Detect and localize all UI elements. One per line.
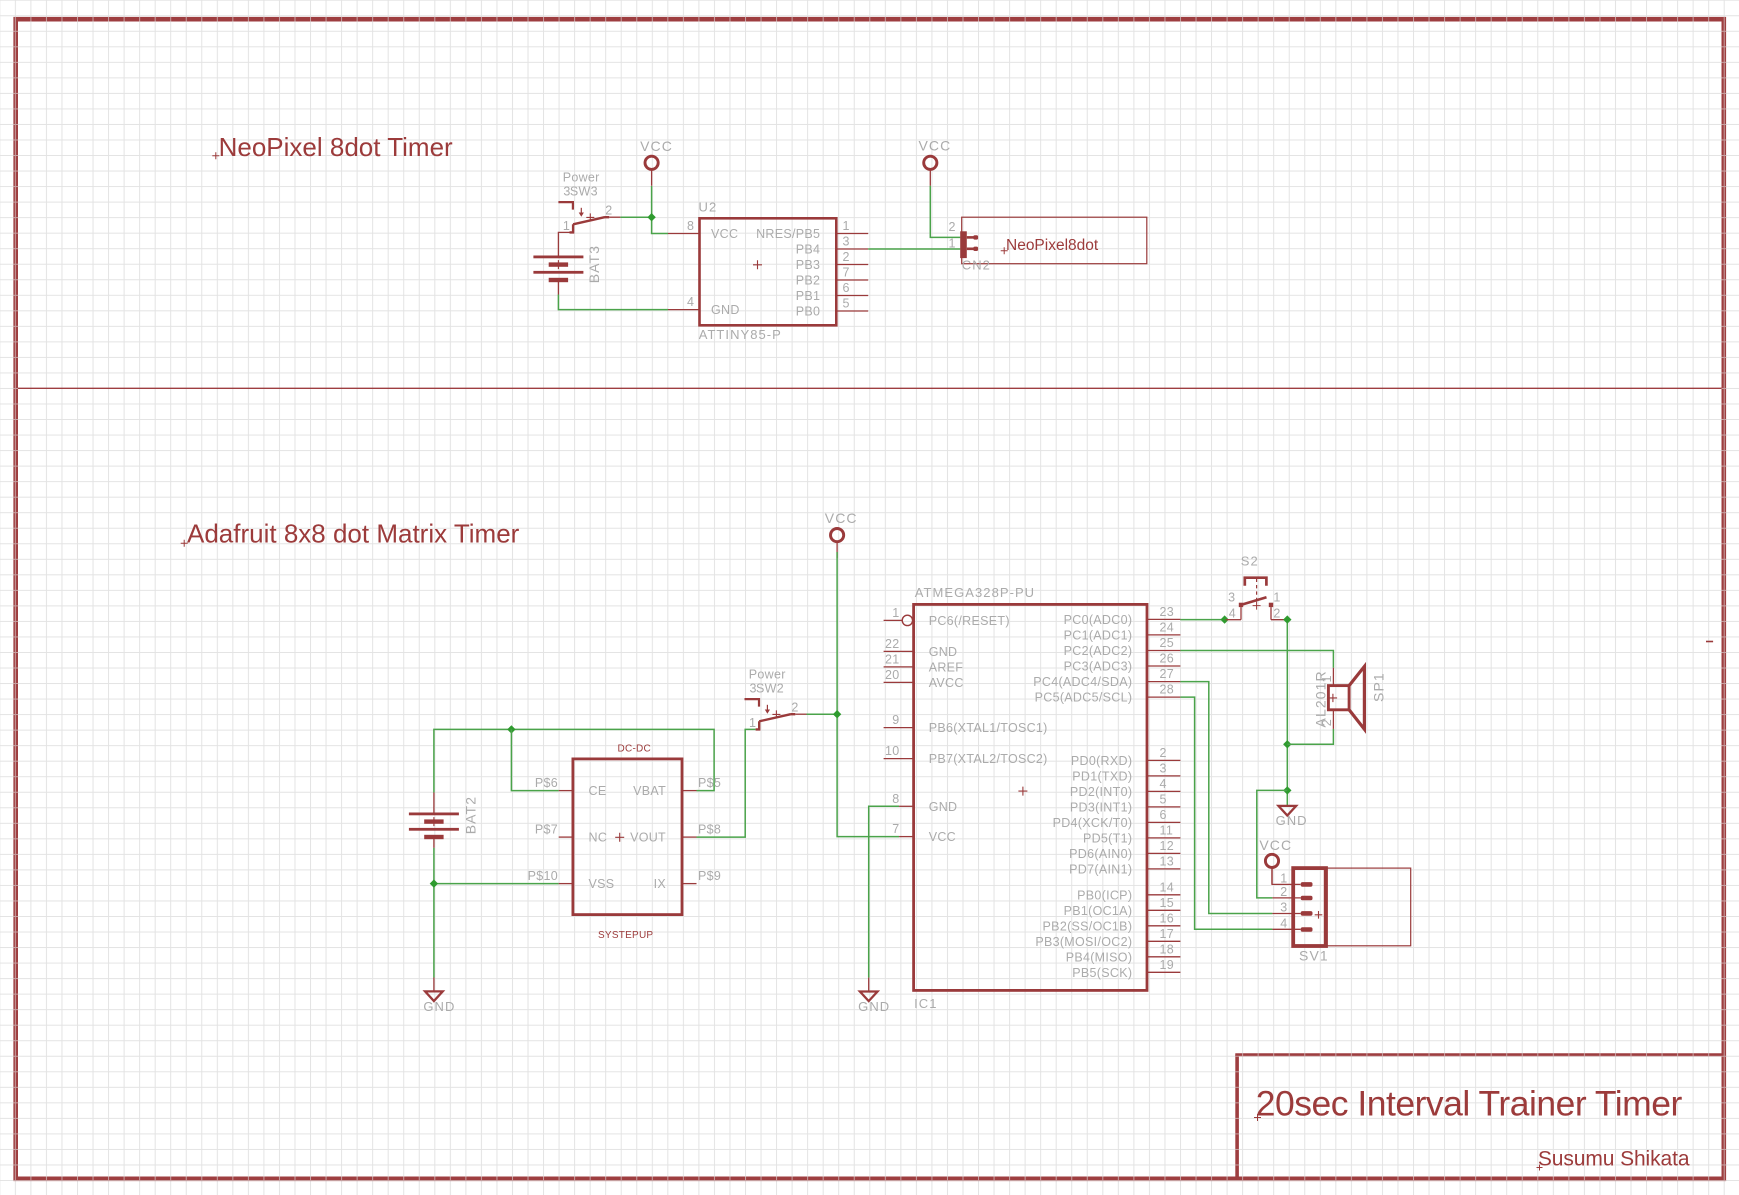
- svg-text:SP1: SP1: [1371, 672, 1387, 702]
- svg-text:PD1(TXD): PD1(TXD): [1072, 769, 1132, 783]
- svg-text:AREF: AREF: [929, 660, 964, 674]
- svg-text:P$9: P$9: [698, 869, 721, 883]
- svg-text:PB0: PB0: [796, 305, 821, 319]
- svg-text:NeoPixel 8dot Timer: NeoPixel 8dot Timer: [219, 132, 453, 162]
- svg-text:BAT3: BAT3: [586, 245, 602, 283]
- svg-text:GND: GND: [1276, 813, 1308, 828]
- svg-text:4: 4: [1229, 606, 1236, 620]
- svg-text:PC1(ADC1): PC1(ADC1): [1064, 628, 1133, 642]
- svg-text:CE: CE: [589, 784, 607, 798]
- svg-text:CN2: CN2: [962, 258, 991, 273]
- svg-text:AVCC: AVCC: [929, 676, 964, 690]
- svg-text:Power: Power: [563, 170, 600, 184]
- svg-text:NRES/PB5: NRES/PB5: [756, 227, 820, 241]
- svg-text:IC1: IC1: [914, 996, 937, 1011]
- ground GND (below IC1): [858, 992, 890, 1015]
- svg-text:S2: S2: [1241, 553, 1259, 568]
- svg-text:PD0(RXD): PD0(RXD): [1071, 754, 1132, 768]
- wire SW2 pin2 to VCC rail: [807, 713, 838, 715]
- junction VCC rail: [833, 710, 841, 718]
- svg-text:26: 26: [1160, 652, 1175, 666]
- svg-text:Adafruit 8x8 dot Matrix Timer: Adafruit 8x8 dot Matrix Timer: [187, 519, 520, 549]
- svg-text:5: 5: [1160, 792, 1167, 806]
- text title "NeoPixel 8dot Timer": [212, 132, 453, 162]
- svg-text:2: 2: [843, 250, 850, 264]
- svg-text:1: 1: [563, 219, 570, 233]
- svg-text:PC6(/RESET): PC6(/RESET): [929, 614, 1010, 628]
- svg-text:PB4: PB4: [796, 243, 821, 257]
- svg-text:DC-DC: DC-DC: [618, 744, 651, 755]
- ground GND (bottom left): [433, 978, 435, 992]
- power VCC (top right): [918, 138, 951, 186]
- svg-text:PD2(INT0): PD2(INT0): [1070, 785, 1132, 799]
- svg-text:SV1: SV1: [1299, 948, 1329, 964]
- ground GND (right): [1276, 806, 1308, 828]
- svg-text:2: 2: [1320, 719, 1334, 726]
- svg-text:1: 1: [892, 606, 899, 620]
- svg-text:24: 24: [1160, 620, 1175, 634]
- svg-text:NeoPixel8dot: NeoPixel8dot: [1006, 237, 1099, 254]
- text sheet title "20sec Interval Trainer Timer": [1254, 1084, 1682, 1124]
- IC IC1 ATMEGA328P-PU: [884, 585, 1181, 1011]
- module outline NeoPixel8dot: [962, 217, 1147, 264]
- svg-text:PD3(INT1): PD3(INT1): [1070, 800, 1132, 814]
- svg-text:P$6: P$6: [535, 776, 558, 790]
- svg-text:1: 1: [1320, 675, 1334, 682]
- svg-text:2: 2: [949, 220, 956, 234]
- svg-text:PB2(SS/OC1B): PB2(SS/OC1B): [1043, 919, 1133, 933]
- wire IC1 pin23 to S2: [1180, 619, 1224, 621]
- wire junction to DC-DC CE: [511, 729, 558, 790]
- svg-text:GND: GND: [929, 800, 958, 814]
- wire SP1 pin2 to GND net: [1287, 729, 1333, 744]
- wire GND branch to SV1 pin2: [1257, 790, 1288, 898]
- connector SV1: [1272, 868, 1328, 963]
- svg-text:PB1(OC1A): PB1(OC1A): [1064, 904, 1133, 918]
- junction S2 pin4: [1220, 615, 1228, 623]
- wire IC1 pin27 to SV1 pin3: [1180, 682, 1272, 914]
- text title "Adafruit 8x8 dot Matrix Timer": [181, 519, 520, 549]
- svg-text:Susumu Shikata: Susumu Shikata: [1538, 1148, 1690, 1171]
- svg-text:VCC: VCC: [1259, 837, 1292, 853]
- svg-text:25: 25: [1160, 636, 1175, 650]
- svg-text:10: 10: [885, 744, 900, 758]
- svg-text:NC: NC: [589, 831, 608, 845]
- svg-text:SYSTEPUP: SYSTEPUP: [598, 930, 653, 941]
- svg-text:PC2(ADC2): PC2(ADC2): [1064, 644, 1133, 658]
- svg-text:PB5(SCK): PB5(SCK): [1072, 966, 1132, 980]
- svg-text:ATTINY85-P: ATTINY85-P: [699, 327, 782, 342]
- svg-text:15: 15: [1160, 896, 1175, 910]
- svg-text:2: 2: [605, 204, 612, 218]
- svg-text:PB4(MISO): PB4(MISO): [1066, 950, 1133, 964]
- junction VCC net: [647, 213, 655, 221]
- junction speaker branch: [1283, 740, 1291, 748]
- svg-text:6: 6: [843, 281, 850, 295]
- battery BAT2: [409, 796, 479, 839]
- svg-text:8: 8: [687, 219, 694, 233]
- svg-text:GND: GND: [929, 645, 958, 659]
- power VCC (at SV1): [1259, 837, 1292, 884]
- svg-text:P$8: P$8: [698, 823, 721, 837]
- svg-text:9: 9: [892, 713, 899, 727]
- svg-text:7: 7: [843, 266, 850, 280]
- svg-text:11: 11: [1160, 823, 1174, 837]
- battery BAT3: [533, 245, 602, 283]
- svg-text:VCC: VCC: [918, 138, 951, 154]
- svg-text:7: 7: [892, 822, 899, 836]
- svg-text:3: 3: [1228, 590, 1235, 604]
- svg-text:14: 14: [1160, 880, 1175, 894]
- svg-text:PC4(ADC4/SDA): PC4(ADC4/SDA): [1033, 675, 1132, 689]
- svg-text:8: 8: [892, 792, 899, 806]
- speaker SP1: [1313, 666, 1387, 729]
- wire VCC to junction to SW3/U2 pin8: [652, 186, 668, 234]
- switch SW3: [558, 170, 620, 233]
- svg-text:12: 12: [1160, 839, 1175, 853]
- svg-text:1: 1: [949, 237, 956, 251]
- svg-text:4: 4: [1280, 917, 1287, 931]
- svg-text:PC5(ADC5/SCL): PC5(ADC5/SCL): [1035, 691, 1133, 705]
- svg-text:18: 18: [1160, 942, 1175, 956]
- svg-text:PB3: PB3: [796, 258, 821, 272]
- svg-text:PB7(XTAL2/TOSC2): PB7(XTAL2/TOSC2): [929, 752, 1048, 766]
- wire IC1 pin28 to SV1 pin4: [1180, 697, 1272, 929]
- svg-text:3: 3: [1160, 761, 1167, 775]
- svg-text:PD4(XCK/T0): PD4(XCK/T0): [1053, 816, 1133, 830]
- junction SV1 pin2 branch: [1283, 786, 1291, 794]
- power VCC (top left): [640, 138, 673, 186]
- svg-text:16: 16: [1160, 911, 1175, 925]
- wire BAT2- to GND and VSS: [433, 848, 435, 978]
- svg-text:4: 4: [687, 295, 694, 309]
- svg-text:PC0(ADC0): PC0(ADC0): [1064, 613, 1133, 627]
- wire IC1 pin25 to speaker SP1: [1180, 651, 1333, 668]
- svg-text:2: 2: [791, 701, 798, 715]
- text author "Susumu Shikata": [1537, 1148, 1690, 1171]
- svg-text:VSS: VSS: [589, 877, 615, 891]
- svg-text:GND: GND: [858, 999, 890, 1014]
- svg-text:PB1: PB1: [796, 289, 821, 303]
- wire BAT2 - stub: [433, 838, 435, 848]
- svg-text:PC3(ADC3): PC3(ADC3): [1064, 660, 1133, 674]
- wire BAT3 - stub: [557, 281, 559, 294]
- svg-text:23: 23: [1160, 605, 1175, 619]
- svg-text:13: 13: [1160, 854, 1175, 868]
- svg-text:1: 1: [1280, 871, 1287, 885]
- svg-text:2: 2: [1160, 746, 1167, 760]
- net stub dash (right edge): [1706, 641, 1713, 643]
- svg-text:19: 19: [1160, 958, 1175, 972]
- IC U2 ATTINY85-P: [668, 200, 868, 343]
- wire BAT2 + stub: [433, 793, 435, 813]
- svg-text:28: 28: [1160, 683, 1175, 697]
- svg-text:20: 20: [885, 668, 900, 682]
- wire VCC to CN2 pin2: [930, 186, 960, 238]
- DC-DC converter SYSTEPUP: [528, 744, 722, 941]
- svg-text:5: 5: [843, 297, 850, 311]
- svg-text:IX: IX: [654, 877, 667, 891]
- wire SW3 pin1 to BAT3 +: [558, 232, 569, 255]
- svg-text:1: 1: [1273, 590, 1280, 604]
- wire BAT3 to U2 pin4 (GND): [558, 295, 668, 310]
- svg-text:PB0(ICP): PB0(ICP): [1077, 888, 1132, 902]
- svg-text:VCC: VCC: [711, 227, 738, 241]
- wire U2 PB4 to CN2 pin1: [868, 248, 960, 250]
- wire DC-DC VOUT to SW2 pin1: [697, 729, 756, 837]
- svg-text:4: 4: [1160, 777, 1167, 791]
- junction rail to CE: [507, 725, 515, 733]
- svg-text:2: 2: [1280, 885, 1287, 899]
- svg-text:22: 22: [885, 637, 900, 651]
- svg-text:6: 6: [1160, 808, 1167, 822]
- svg-text:2: 2: [1273, 606, 1280, 620]
- wire VCC to SV1 pin1: [1272, 868, 1301, 885]
- svg-text:PD6(AIN0): PD6(AIN0): [1069, 847, 1132, 861]
- svg-text:BAT2: BAT2: [463, 796, 479, 834]
- svg-text:17: 17: [1160, 927, 1175, 941]
- svg-text:P$7: P$7: [535, 823, 558, 837]
- svg-text:1: 1: [843, 219, 850, 233]
- wire VCC symbol down to IC1 VCC pin7: [837, 552, 899, 837]
- wire IC1 GND pin8 to ground: [869, 806, 899, 977]
- svg-text:PB2: PB2: [796, 274, 821, 288]
- svg-text:VOUT: VOUT: [630, 831, 666, 845]
- svg-text:3: 3: [1280, 900, 1287, 914]
- svg-text:PB6(XTAL1/TOSC1): PB6(XTAL1/TOSC1): [929, 721, 1048, 735]
- svg-text:PD5(T1): PD5(T1): [1083, 831, 1132, 845]
- svg-text:SW2: SW2: [756, 682, 784, 696]
- switch SW2: [745, 667, 807, 730]
- svg-text:Power: Power: [749, 667, 786, 681]
- svg-text:P$5: P$5: [698, 776, 721, 790]
- svg-text:3: 3: [843, 235, 850, 249]
- svg-text:VBAT: VBAT: [633, 784, 666, 798]
- svg-text:VCC: VCC: [640, 138, 673, 154]
- svg-text:P$10: P$10: [528, 869, 558, 883]
- power VCC (above IC1): [825, 510, 858, 558]
- svg-text:VCC: VCC: [825, 510, 858, 526]
- svg-text:PB3(MOSI/OC2): PB3(MOSI/OC2): [1035, 935, 1132, 949]
- svg-text:GND: GND: [423, 999, 455, 1014]
- svg-text:VCC: VCC: [929, 830, 956, 844]
- svg-text:1: 1: [749, 716, 756, 730]
- junction S2/GND: [1283, 615, 1291, 623]
- junction BAT2- net: [430, 879, 438, 887]
- switch S2: [1226, 553, 1288, 620]
- svg-text:SW3: SW3: [570, 185, 598, 199]
- svg-text:GND: GND: [711, 303, 740, 317]
- svg-text:ATMEGA328P-PU: ATMEGA328P-PU: [915, 585, 1035, 600]
- connector CN2: [949, 220, 991, 273]
- svg-text:21: 21: [885, 652, 900, 666]
- svg-text:PD7(AIN1): PD7(AIN1): [1069, 862, 1132, 876]
- module outline at SV1: [1324, 868, 1410, 946]
- wire BAT2+ to VBAT rail: [434, 729, 714, 792]
- wire S2 pin2 down (GND net): [1286, 620, 1288, 806]
- svg-text:27: 27: [1160, 667, 1175, 681]
- svg-text:20sec Interval Trainer Timer: 20sec Interval Trainer Timer: [1256, 1084, 1683, 1124]
- svg-text:U2: U2: [699, 200, 718, 215]
